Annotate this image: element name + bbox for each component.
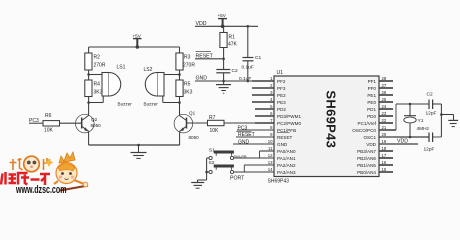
wire pin25 stub (379, 101, 393, 103)
capacitor C1 0.1uF (242, 25, 262, 82)
wire pin14 (from S2) (234, 171, 274, 173)
wire pin13 (244, 165, 274, 172)
wire R7 to IC pin7 (224, 122, 257, 124)
node PC3 (pin8) (237, 125, 274, 131)
svg-text:VDD: VDD (397, 139, 408, 145)
wire pin28 stub (379, 80, 393, 82)
node R5/LS2 (178, 101, 181, 104)
svg-text:PF1: PF1 (368, 79, 377, 84)
svg-text:Y1: Y1 (418, 118, 424, 124)
pin 16 PB1/AN5 (357, 160, 387, 168)
node R2/LS1 (87, 73, 90, 76)
capacitor C2 12pF (426, 92, 437, 117)
svg-text:SH69P43: SH69P43 (324, 90, 339, 148)
node RESET (195, 52, 224, 60)
pin 21 OSCO/PC0 (352, 125, 387, 133)
svg-text:PC1/PFB: PC1/PFB (277, 128, 296, 133)
svg-text:PA3/AN3: PA3/AN3 (277, 170, 296, 175)
svg-text:Buzzer: Buzzer (118, 102, 133, 107)
resistor R6 10K (43, 113, 60, 134)
capacitor C3 12pF (424, 133, 435, 153)
pin 24 PD1 (367, 104, 387, 112)
ground (buzzer stage) (131, 144, 147, 159)
wire switches common (198, 158, 210, 182)
svg-text:PB0/AN4: PB0/AN4 (357, 170, 376, 175)
switch S1 SW-PB (209, 148, 247, 160)
node GND (pin10) (233, 140, 274, 146)
pin 19 VDD (366, 139, 387, 147)
wire GND rail to pin1 (252, 80, 274, 82)
svg-text:U1: U1 (277, 70, 284, 76)
wire pin6 (255, 115, 274, 117)
watermark dzsc.com logo (1, 152, 88, 196)
wire pin18 stub (379, 150, 393, 152)
wire R4 to Q2 collector (88, 97, 90, 116)
capacitor C2 0.1uF (reset) (216, 68, 251, 82)
wire Q1 emitter down (179, 131, 181, 145)
svg-text:8050: 8050 (189, 135, 200, 140)
wire Q2 emitter down (88, 131, 90, 145)
pin 14 PA3/AN3 (268, 167, 296, 175)
svg-text:C2: C2 (427, 92, 433, 98)
pin 8 PC1/PFB (270, 125, 296, 133)
pin 15 PB0/AN4 (357, 167, 387, 175)
node VDD rail (195, 21, 258, 27)
wire pin4 (252, 101, 274, 103)
ground (crystal) (448, 120, 458, 126)
pin 6 PD3/PWM1 (270, 111, 301, 119)
wire pin21 OSCO (379, 104, 396, 130)
svg-text:PB2/AN6: PB2/AN6 (357, 156, 376, 161)
node VDD (pin19) (379, 139, 418, 145)
svg-text:PB3/AN7: PB3/AN7 (357, 149, 376, 154)
power +5V (left) (133, 33, 142, 49)
resistor R7 10K (208, 115, 225, 134)
wire pin5 (255, 108, 274, 110)
svg-text:R3: R3 (184, 55, 191, 61)
svg-text:PA1/AN1: PA1/AN1 (277, 156, 296, 161)
wire Q1 base to R7 (187, 122, 208, 124)
svg-text:Q1: Q1 (189, 111, 196, 116)
resistor R5 3K3 (176, 80, 193, 97)
pin 13 PA2/AN2 (268, 160, 296, 168)
svg-text:RESET: RESET (277, 135, 293, 140)
op-amp U1 SH69P43 (MCU) (268, 70, 380, 185)
pin 17 PB2/AN6 (357, 153, 387, 161)
pin 27 PF0 (368, 83, 387, 91)
wire pin26 stub (379, 94, 393, 96)
wire pin7 (from R7) (255, 122, 274, 124)
pin 26 PE1 (367, 90, 387, 98)
svg-text:SH69P43: SH69P43 (268, 179, 290, 185)
wire pin27 stub (379, 87, 393, 89)
pin 12 PA1/AN1 (268, 153, 296, 161)
power +5V (reset circuit) (218, 13, 228, 28)
resistor R4 3K3 (85, 80, 103, 97)
svg-text:PE3: PE3 (277, 100, 286, 105)
pin 28 PF1 (368, 76, 387, 84)
pin 1 PF2 (270, 76, 286, 84)
node R3/LS2 (178, 73, 181, 76)
svg-text:www.dzsc.com: www.dzsc.com (15, 184, 66, 194)
wire pin17 stub (379, 157, 393, 159)
svg-text:GND: GND (277, 142, 288, 147)
svg-text:+5V: +5V (218, 13, 227, 18)
svg-text:GND: GND (238, 140, 250, 146)
wire pin23 stub (379, 115, 393, 117)
switch S2 (209, 160, 234, 173)
crystal Y1 4MHz (404, 103, 430, 139)
svg-text:Buzzer: Buzzer (144, 102, 159, 107)
wire R1 to RESET (223, 48, 225, 70)
svg-text:PE2: PE2 (277, 93, 286, 98)
svg-text:LS2: LS2 (144, 67, 153, 73)
svg-text:8050: 8050 (91, 123, 102, 128)
svg-text:270R: 270R (183, 63, 195, 69)
ground (switches) (191, 183, 204, 189)
svg-text:PF2: PF2 (277, 79, 286, 84)
node GND rail (195, 76, 252, 82)
svg-text:PF0: PF0 (368, 86, 377, 91)
svg-text:R2: R2 (94, 55, 101, 61)
svg-text:Q2: Q2 (91, 117, 98, 122)
pin 4 PE3 (270, 97, 286, 105)
svg-text:PA2/AN2: PA2/AN2 (277, 163, 296, 168)
node R4/LS1 (87, 101, 90, 104)
svg-text:12pF: 12pF (426, 111, 437, 117)
resistor R3 270R (176, 47, 195, 70)
svg-text:270R: 270R (94, 63, 106, 69)
svg-text:10K: 10K (210, 128, 220, 134)
svg-text:C2: C2 (232, 68, 238, 74)
wire pin11 (260, 151, 275, 158)
svg-text:PC1/Vref: PC1/Vref (358, 121, 377, 126)
svg-text:PE0: PE0 (367, 100, 376, 105)
pin 23 PD0 (367, 111, 387, 119)
svg-text:3K3: 3K3 (94, 90, 103, 96)
wire pin2 (252, 87, 274, 89)
svg-text:R1: R1 (229, 35, 236, 41)
svg-text:PA0/AN0: PA0/AN0 (277, 149, 296, 154)
pin 3 PE2 (270, 90, 286, 98)
svg-text:PD3/PWM1: PD3/PWM1 (277, 114, 301, 119)
svg-text:R5: R5 (184, 82, 191, 88)
wire R5 to Q1 collector (179, 97, 181, 116)
svg-text:OSCO/PC0: OSCO/PC0 (352, 128, 376, 133)
wire R3-R5 (179, 70, 181, 80)
wire PC3 to R6 (29, 122, 43, 124)
node RESET (pin9) (236, 132, 274, 139)
buzzer LS1 (89, 65, 133, 107)
pin 5 PD2 (270, 104, 286, 112)
resistor R2 270R (85, 47, 106, 70)
svg-text:R7: R7 (209, 115, 216, 121)
pin 11 PA0/AN0 (268, 146, 296, 154)
svg-text:VDD: VDD (366, 142, 376, 147)
wire crystal top rail (396, 103, 429, 105)
buzzer LS2 (144, 67, 180, 107)
svg-text:3K3: 3K3 (184, 90, 193, 96)
pin 20 OSC1 (363, 132, 386, 140)
pin 2 PF3 (270, 83, 286, 91)
wire emitter rail (89, 144, 180, 146)
svg-text:PD1: PD1 (367, 107, 376, 112)
wire R2-R4 (88, 70, 90, 80)
svg-text:R4: R4 (94, 82, 101, 88)
pin 18 PB3/AN7 (357, 146, 387, 154)
wire right vertical (440, 104, 453, 137)
svg-text:+5V: +5V (133, 33, 142, 38)
svg-text:C1: C1 (255, 55, 261, 61)
resistor R1 47K (220, 26, 238, 47)
pin 22 PC1/Vref (358, 118, 387, 126)
svg-text:PD0: PD0 (367, 114, 376, 119)
svg-text:PF3: PF3 (277, 86, 286, 91)
svg-text:LS1: LS1 (117, 65, 126, 71)
wire +5V top rail (89, 46, 180, 48)
wire pin22 stub (379, 122, 393, 124)
wire pin20 OSC1 / bottom rail (379, 136, 441, 138)
transistor Q1 8050 (174, 111, 199, 141)
wire pin3 (252, 94, 274, 96)
svg-text:10K: 10K (44, 128, 54, 134)
pin 7 PC2/PWM0 (270, 118, 301, 126)
svg-text:12pF: 12pF (424, 147, 435, 153)
svg-text:PORT: PORT (230, 175, 245, 181)
wire pin12 (from S1) (234, 157, 274, 159)
pin 25 PE0 (367, 97, 387, 105)
svg-text:PB1/AN5: PB1/AN5 (357, 163, 376, 168)
wire pin15 stub (379, 171, 393, 173)
svg-text:PD2: PD2 (277, 107, 286, 112)
svg-text:R6: R6 (45, 113, 52, 119)
wire R6 to Q2 base (60, 122, 82, 124)
svg-text:4MHz: 4MHz (417, 126, 430, 132)
transistor Q2 8050 (76, 114, 102, 133)
ground (reset circuit) (216, 80, 231, 94)
wire pin24 stub (379, 108, 393, 110)
svg-text:PE1: PE1 (367, 93, 376, 98)
svg-text:PC2/PWM0: PC2/PWM0 (277, 121, 301, 126)
wire pin16 stub (379, 164, 393, 166)
svg-text:47K: 47K (228, 42, 238, 48)
pin 9 RESET (270, 132, 292, 140)
svg-text:OSC1: OSC1 (363, 135, 376, 140)
pin 10 GND (268, 139, 288, 147)
